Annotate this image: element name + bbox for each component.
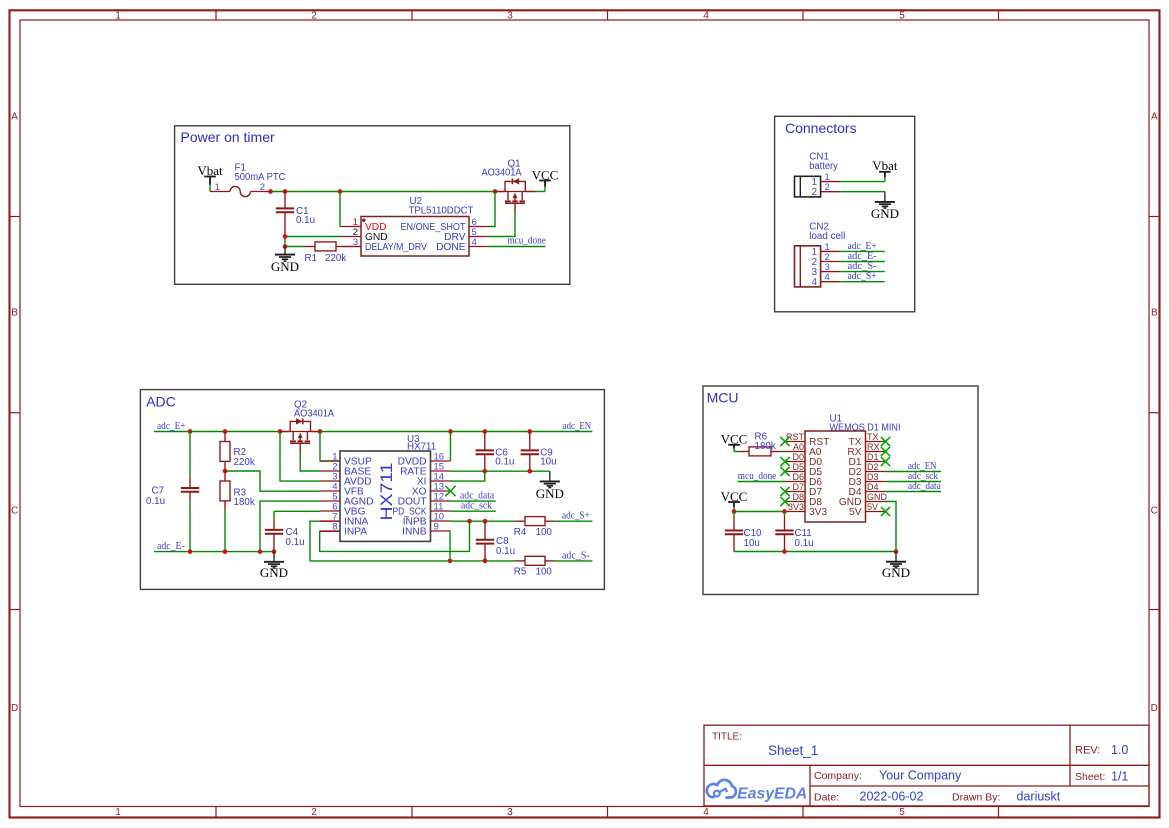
- wire XI up: [451, 471, 485, 481]
- svg-text:5: 5: [899, 11, 905, 22]
- svg-text:Power on timer: Power on timer: [181, 129, 275, 145]
- resistor R3 180k: [220, 471, 255, 552]
- svg-text:D7: D7: [792, 482, 804, 492]
- svg-text:INNB: INNB: [402, 527, 427, 538]
- svg-text:mcu_done: mcu_done: [738, 471, 777, 482]
- svg-text:R1: R1: [305, 253, 318, 264]
- no-connect X on U3 pin 13 XO: [445, 486, 455, 496]
- resistor R2 220k: [220, 432, 255, 472]
- svg-text:GND: GND: [867, 492, 888, 502]
- svg-text:Your Company: Your Company: [879, 769, 962, 783]
- wire net adc_S- (CN2): [840, 261, 885, 272]
- svg-text:DONE: DONE: [436, 242, 466, 253]
- ground symbol GND (connectors): [871, 192, 899, 221]
- svg-text:1.0: 1.0: [1111, 743, 1128, 757]
- svg-text:WEMOS D1 MINI: WEMOS D1 MINI: [830, 422, 901, 433]
- svg-text:5: 5: [899, 807, 905, 818]
- wire net adc_data (U1 D4): [886, 481, 942, 492]
- wire net VCC (Q1 drain): [535, 191, 545, 193]
- junction: [527, 429, 532, 434]
- wire to U3 DVDD: [450, 432, 452, 462]
- IC U2 TPL5110DDCT: [341, 196, 489, 256]
- svg-text:D3: D3: [867, 472, 879, 482]
- svg-text:B: B: [11, 308, 18, 319]
- junction: [338, 189, 343, 194]
- svg-text:4: 4: [472, 237, 477, 248]
- wire INNB down: [449, 531, 451, 561]
- power port VCC (power timer): [532, 167, 559, 191]
- wire net GND (MCU bottom rail): [734, 502, 898, 554]
- svg-text:0.1u: 0.1u: [495, 457, 514, 468]
- capacitor C6 0.1u: [476, 432, 515, 472]
- svg-text:D4: D4: [867, 482, 879, 492]
- junction: [223, 469, 228, 474]
- wire to U2 EN/ONE_SHOT: [489, 192, 495, 227]
- svg-text:3: 3: [507, 11, 513, 22]
- title block: [704, 725, 1149, 806]
- wire net adc_S+: [555, 511, 592, 522]
- svg-text:D1: D1: [867, 452, 879, 462]
- resistor R6 180k: [734, 432, 785, 456]
- ground symbol GND (MCU): [882, 552, 910, 580]
- svg-text:VCC: VCC: [721, 432, 748, 447]
- svg-text:220k: 220k: [325, 253, 346, 264]
- wire net VFB (R2/R3 to U3 VFB): [223, 469, 320, 492]
- svg-text:C: C: [11, 506, 18, 517]
- svg-text:3: 3: [353, 237, 358, 248]
- svg-text:C: C: [1151, 506, 1158, 517]
- svg-text:AO3401A: AO3401A: [482, 168, 522, 179]
- capacitor C11 0.1u: [775, 512, 813, 552]
- wire net mcu_done (U1 D6): [738, 471, 786, 482]
- svg-text:adc_S+: adc_S+: [562, 511, 590, 522]
- EasyEDA logo: [707, 780, 807, 803]
- svg-text:adc_S-: adc_S-: [562, 550, 590, 561]
- svg-text:1: 1: [115, 807, 121, 818]
- IC U3 HX711: [320, 434, 451, 541]
- svg-text:0.1u: 0.1u: [496, 546, 515, 557]
- svg-text:5V: 5V: [867, 502, 878, 512]
- wire Q2 gate to U3 BASE: [300, 443, 320, 471]
- svg-text:EasyEDA: EasyEDA: [737, 785, 807, 802]
- svg-text:4: 4: [825, 272, 830, 283]
- section frame: Connectors: [775, 116, 915, 311]
- wire INPA loop (U3 pin8 to INPB row): [320, 521, 470, 551]
- resistor R5 100: [514, 556, 555, 577]
- power port Vbat: [197, 163, 223, 192]
- wire net adc_E- (bottom rail left): [154, 501, 320, 554]
- svg-text:1: 1: [215, 182, 220, 193]
- wire net adc_E+ (top rail left): [154, 421, 320, 481]
- transistor Q2 AO3401A: [280, 399, 334, 443]
- junction: [527, 469, 532, 474]
- svg-text:GND: GND: [271, 259, 299, 274]
- svg-text:HX711: HX711: [407, 441, 436, 452]
- wire net GND (CN1 pin2): [840, 191, 885, 193]
- svg-text:adc_S+: adc_S+: [848, 271, 877, 282]
- wire net GND (C1 / U2 GND / R1): [283, 234, 341, 249]
- wire net adc_EN (U1 D2): [886, 461, 942, 472]
- wire U3 AGND down: [260, 501, 320, 551]
- wire to U3 AVDD: [280, 432, 320, 482]
- svg-text:9: 9: [434, 522, 439, 533]
- wire net DRV (U2 pin5 to Q1 gate): [489, 203, 515, 236]
- svg-text:220k: 220k: [234, 457, 255, 468]
- svg-text:MCU: MCU: [707, 389, 739, 405]
- junction: [188, 429, 193, 434]
- junction: [482, 429, 487, 434]
- svg-text:VCC: VCC: [532, 167, 559, 182]
- junction: [483, 559, 488, 564]
- junction: [283, 189, 288, 194]
- svg-text:REV:: REV:: [1075, 744, 1100, 756]
- svg-text:180k: 180k: [234, 497, 255, 508]
- power port VCC (3V3 rail): [721, 489, 748, 512]
- capacitor C9 10u: [521, 432, 557, 472]
- capacitor C7 0.1u: [146, 432, 199, 552]
- svg-text:2: 2: [811, 187, 817, 198]
- svg-text:Date:: Date:: [814, 791, 839, 803]
- svg-text:4: 4: [703, 11, 709, 22]
- svg-text:3V3: 3V3: [788, 502, 804, 512]
- svg-text:D: D: [1151, 703, 1158, 714]
- junction: [278, 429, 283, 434]
- IC U1 WEMOS D1 MINI: [785, 413, 901, 522]
- svg-text:D6: D6: [792, 472, 804, 482]
- svg-text:Company:: Company:: [814, 770, 862, 782]
- resistor R1 220k: [305, 242, 362, 264]
- svg-text:2: 2: [825, 182, 830, 193]
- wire to U2 VDD: [339, 192, 341, 227]
- svg-text:2: 2: [311, 807, 317, 818]
- svg-text:0.1u: 0.1u: [146, 496, 165, 507]
- capacitor C8 0.1u: [476, 521, 515, 561]
- junction: [272, 549, 277, 554]
- junction: [223, 429, 228, 434]
- svg-text:adc_E+: adc_E+: [157, 421, 186, 432]
- svg-text:battery: battery: [809, 161, 838, 172]
- svg-text:0.1u: 0.1u: [296, 215, 315, 226]
- capacitor C4 0.1u: [265, 511, 320, 551]
- svg-text:R4: R4: [514, 527, 527, 538]
- svg-text:180k: 180k: [755, 441, 776, 452]
- wire net mcu_done (U2 DONE): [489, 236, 546, 247]
- ground symbol GND (power timer): [271, 247, 299, 274]
- svg-text:1/1: 1/1: [1111, 770, 1128, 784]
- power port Vbat (connectors): [872, 158, 898, 181]
- svg-text:D0: D0: [792, 452, 804, 462]
- svg-text:4: 4: [703, 807, 709, 818]
- transistor Q1 AO3401A: [482, 158, 536, 203]
- svg-text:VCC: VCC: [721, 489, 748, 504]
- svg-text:GND: GND: [871, 206, 899, 221]
- svg-text:500mA PTC: 500mA PTC: [235, 172, 286, 183]
- svg-text:TX: TX: [867, 432, 879, 442]
- junction: [493, 189, 498, 194]
- svg-text:0.1u: 0.1u: [795, 538, 814, 549]
- svg-text:A: A: [1151, 112, 1158, 123]
- svg-text:Vbat: Vbat: [872, 158, 898, 173]
- junction: [482, 469, 487, 474]
- connector CN2 load cell: [795, 222, 846, 288]
- svg-text:100: 100: [536, 527, 553, 538]
- svg-text:C7: C7: [152, 485, 165, 496]
- svg-text:A0: A0: [793, 442, 804, 452]
- svg-text:3V3: 3V3: [809, 507, 827, 518]
- ground symbol GND (ADC left): [260, 552, 288, 580]
- junction: [782, 509, 787, 514]
- wire net INPB / adc_S+ row: [451, 519, 516, 524]
- svg-text:load cell: load cell: [809, 231, 845, 242]
- wire net adc_sck (U3 PD_SCK): [451, 501, 496, 512]
- no-connect X marks U1 left: [780, 437, 789, 506]
- wire net adc_sck (U1 D3): [886, 471, 942, 482]
- svg-text:D8: D8: [792, 492, 804, 502]
- wire net adc_EN (top rail right): [318, 421, 593, 461]
- junction: [732, 509, 737, 514]
- svg-text:GND: GND: [536, 486, 564, 501]
- wire net adc_S+ (CN2): [840, 271, 885, 282]
- svg-text:mcu_done: mcu_done: [508, 236, 547, 247]
- wire net adc_data (U3 DOUT): [451, 491, 496, 502]
- capacitor C1 0.1u: [276, 192, 315, 237]
- svg-text:TITLE:: TITLE:: [712, 731, 742, 742]
- wire net Vbat (CN1 pin1): [840, 181, 885, 183]
- svg-text:dariuskt: dariuskt: [1017, 790, 1061, 804]
- no-connect X marks U1 right: [881, 437, 890, 516]
- junction: [188, 549, 193, 554]
- junction: [283, 234, 288, 239]
- wire to U3 VSUP: [320, 432, 340, 462]
- svg-text:0.1u: 0.1u: [286, 537, 305, 548]
- section frame: Power on timer: [175, 126, 570, 284]
- svg-text:R5: R5: [514, 567, 527, 578]
- section frame: ADC: [140, 390, 604, 590]
- svg-text:Drawn By:: Drawn By:: [952, 791, 1000, 803]
- junction: [894, 549, 899, 554]
- svg-text:ADC: ADC: [146, 393, 176, 409]
- svg-text:10u: 10u: [540, 457, 556, 468]
- ground symbol GND (ADC right): [536, 471, 564, 501]
- wire INNA loop (U3 pin7 to bottom rail): [310, 521, 515, 563]
- section frame: MCU: [703, 386, 978, 595]
- junction: [782, 549, 787, 554]
- capacitor C10 10u: [725, 512, 762, 552]
- junction: [448, 559, 453, 564]
- svg-text:GND: GND: [882, 565, 910, 580]
- wire net adc_E- (CN2): [840, 251, 885, 262]
- svg-text:3: 3: [507, 807, 513, 818]
- power port VCC (R6): [721, 432, 748, 452]
- svg-text:INPA: INPA: [344, 527, 367, 538]
- svg-text:Sheet_1: Sheet_1: [768, 743, 818, 758]
- svg-text:D5: D5: [792, 462, 804, 472]
- fuse F1 500mA PTC: [210, 162, 286, 196]
- svg-text:D2: D2: [867, 462, 879, 472]
- svg-text:TPL5110DDCT: TPL5110DDCT: [409, 206, 474, 217]
- svg-text:adc_sck: adc_sck: [461, 501, 493, 512]
- svg-text:2: 2: [260, 182, 265, 193]
- junction: [448, 429, 453, 434]
- svg-text:DELAY/M_DRV: DELAY/M_DRV: [365, 242, 427, 253]
- junction: [268, 189, 273, 194]
- svg-text:adc_data: adc_data: [908, 481, 941, 492]
- svg-text:adc_EN: adc_EN: [563, 421, 592, 432]
- junction: [467, 519, 472, 524]
- svg-text:adc_E-: adc_E-: [157, 541, 185, 552]
- svg-text:5V: 5V: [849, 507, 862, 518]
- junction: [258, 549, 263, 554]
- svg-text:GND: GND: [260, 565, 288, 580]
- svg-text:Sheet:: Sheet:: [1075, 771, 1105, 783]
- wire net adc_S-: [555, 550, 592, 561]
- wire net AGND-rail (RATE/XI/C6/C9 to GND): [451, 469, 550, 481]
- svg-text:4: 4: [811, 277, 817, 288]
- junction: [223, 549, 228, 554]
- svg-text:B: B: [1151, 308, 1158, 319]
- svg-text:2022-06-02: 2022-06-02: [860, 790, 924, 804]
- connector CN1 battery: [795, 152, 841, 199]
- wire net Vbat (fuse to Q1): [268, 189, 497, 226]
- svg-text:1: 1: [115, 11, 121, 22]
- svg-text:HX711: HX711: [378, 463, 396, 521]
- wire U1 GND pin down: [886, 502, 897, 552]
- svg-text:Vbat: Vbat: [197, 163, 223, 178]
- junction: [483, 519, 488, 524]
- svg-text:A: A: [11, 112, 18, 123]
- junction: [283, 244, 288, 249]
- svg-text:D: D: [11, 703, 18, 714]
- svg-text:AO3401A: AO3401A: [294, 409, 334, 420]
- svg-text:10u: 10u: [744, 538, 760, 549]
- resistor R4 100: [514, 517, 555, 538]
- svg-text:2: 2: [311, 11, 317, 22]
- junction: [318, 429, 323, 434]
- svg-text:Connectors: Connectors: [785, 120, 857, 136]
- svg-text:100: 100: [536, 567, 553, 578]
- wire net adc_E+ (CN2): [840, 241, 885, 252]
- wire net VCC 3V3 rail: [732, 509, 787, 514]
- svg-text:RX: RX: [867, 442, 880, 452]
